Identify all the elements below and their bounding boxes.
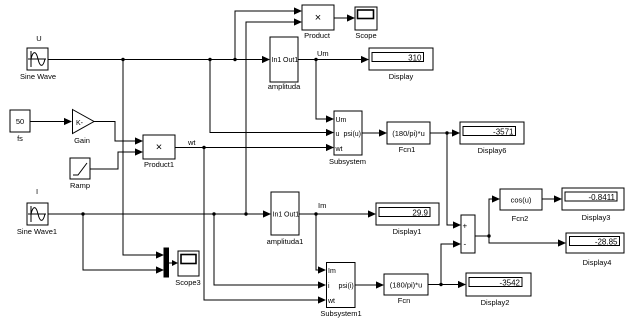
block Gain — [73, 110, 95, 146]
arrowhead into Display1 — [368, 210, 376, 217]
wire Fcn2 output to Display3 — [542, 198, 555, 200]
svg-text:fs: fs — [17, 134, 23, 143]
block Display4 (value -28.85) — [566, 233, 624, 267]
wire i branch to mux input 2 — [83, 214, 157, 270]
junction node on i wire at Product branch — [244, 212, 247, 215]
wire U: Sine Wave output to amplituda In1 — [48, 59, 263, 61]
wire i branch to Subsystem1 i input — [214, 214, 319, 285]
arrowhead into amplituda In1 — [262, 56, 270, 63]
arrowhead into Fcn2 — [492, 195, 500, 202]
arrowhead into Subsystem u — [326, 129, 334, 136]
svg-text:amplituda1: amplituda1 — [267, 237, 304, 246]
svg-text:cos(u): cos(u) — [511, 196, 532, 205]
svg-text:Sine Wave1: Sine Wave1 — [17, 227, 57, 236]
junction node on U wire at Product branch — [233, 58, 236, 61]
wire Gain output to Product1 input 1 — [94, 122, 136, 142]
svg-text:amplituda: amplituda — [268, 82, 301, 91]
svg-text:50: 50 — [16, 117, 24, 126]
wire Sum output branch to Display4 — [489, 236, 559, 243]
svg-text:Fcn: Fcn — [398, 296, 411, 305]
svg-text:Display1: Display1 — [393, 227, 422, 236]
svg-text:I: I — [36, 187, 38, 196]
svg-text:U: U — [36, 34, 41, 43]
wire wt branch to Subsystem1 wt input — [204, 148, 319, 301]
svg-text:Ramp: Ramp — [70, 181, 90, 190]
svg-text:-: - — [464, 240, 467, 249]
block Product (multiplier) — [302, 5, 334, 40]
wire mux output to Scope3 — [168, 262, 172, 264]
svg-text:Subsystem1: Subsystem1 — [320, 309, 361, 318]
arrowhead into Sum plus — [453, 221, 461, 228]
svg-text:Product: Product — [304, 31, 331, 40]
wire Fcn output to Display2 — [428, 284, 459, 286]
svg-text:Im: Im — [328, 268, 336, 275]
arrowhead into Product1 input 2 — [135, 148, 143, 155]
wire Subsystem psi(u) output to Fcn1 — [362, 132, 380, 134]
arrowhead into amplituda1 In1 — [263, 210, 271, 217]
block Fcn2 — [500, 189, 542, 223]
wire Subsystem1 psi(i) output to Fcn — [355, 284, 377, 286]
svg-text:-3571: -3571 — [493, 128, 514, 137]
arrowhead into Display — [361, 56, 369, 63]
arrowhead into Display4 — [558, 239, 566, 246]
arrowhead into Fcn — [376, 281, 384, 288]
svg-text:psi(u): psi(u) — [344, 131, 362, 138]
wire U branch to Subsystem u input — [210, 60, 327, 133]
block Display2 (value -3542) — [466, 273, 531, 307]
svg-text:29.9: 29.9 — [412, 209, 428, 218]
wire Sum output junction — [475, 235, 489, 237]
arrowhead into mux input 2 — [156, 266, 164, 273]
arrowhead into Fcn1 — [379, 129, 387, 136]
block Subsystem — [329, 111, 366, 166]
arrowhead into Display2 — [458, 281, 466, 288]
svg-text:psi(i): psi(i) — [339, 283, 354, 290]
arrowhead into Display3 — [554, 195, 562, 202]
wire Sum output branch to Fcn2 — [489, 199, 493, 236]
block amplituda (subsystem In1/Out1) — [268, 37, 301, 91]
arrowhead into Product1 input 1 — [135, 137, 143, 144]
junction node Um — [314, 58, 317, 61]
svg-text:310: 310 — [408, 54, 422, 63]
svg-text:Out1: Out1 — [283, 57, 298, 64]
junction node on i wire at mux branch — [81, 212, 84, 215]
block Fcn1 — [387, 122, 430, 154]
wire Im branch to Subsystem1 Im input — [316, 214, 319, 270]
block Scope3 — [175, 251, 200, 287]
svg-text:Um: Um — [336, 117, 347, 124]
svg-text:K-: K- — [76, 120, 84, 127]
svg-text:u: u — [336, 131, 340, 138]
wire Fcn1 output to Display6 — [430, 132, 453, 134]
svg-text:Display6: Display6 — [478, 146, 507, 155]
wire i: Sine Wave1 output to amplituda1 In1 — [48, 213, 264, 215]
junction node on U wire at mux branch — [121, 58, 124, 61]
wire Ramp output to Product1 input 2 — [90, 152, 136, 169]
svg-text:Scope: Scope — [355, 31, 376, 40]
wire Product output to Scope — [334, 17, 348, 19]
wire Um branch to Subsystem Um input — [316, 60, 327, 120]
svg-text:(180/pi)*u: (180/pi)*u — [390, 281, 423, 290]
wire Im: amplituda1 Out1 to Display1 — [299, 213, 369, 215]
block Sine Wave1 (I source) — [17, 187, 57, 236]
wire Fcn1 branch to Sum plus input — [447, 133, 454, 225]
svg-text:Gain: Gain — [74, 136, 90, 145]
svg-text:wt: wt — [187, 138, 196, 147]
arrowhead into Subsystem1 Im — [318, 266, 326, 273]
block Scope — [355, 7, 377, 40]
junction node on Fcn1 output — [445, 131, 448, 134]
svg-text:(180/pi)*u: (180/pi)*u — [392, 129, 425, 138]
block Ramp — [70, 158, 90, 190]
wire Fcn branch to Sum minus input — [441, 244, 454, 285]
svg-text:In1: In1 — [272, 57, 282, 64]
wire U branch to Product input 1 — [235, 11, 295, 60]
svg-text:wt: wt — [327, 298, 335, 305]
svg-text:Product1: Product1 — [144, 160, 174, 169]
arrowhead into Display6 — [452, 129, 460, 136]
block Product1 (multiplier) — [143, 135, 175, 169]
block Sine Wave (U source) — [20, 34, 56, 81]
svg-text:Display3: Display3 — [582, 213, 611, 222]
block Display1 (value 29.9) — [376, 203, 439, 236]
arrowhead into Product input 2 — [294, 18, 302, 25]
junction node on i wire at Subsystem1 branch — [212, 212, 215, 215]
arrowhead into Subsystem1 wt — [318, 296, 326, 303]
junction node Im — [314, 212, 317, 215]
svg-text:Out1: Out1 — [284, 212, 299, 219]
block amplituda1 (subsystem In1/Out1) — [267, 192, 304, 246]
svg-text:-28.85: -28.85 — [595, 238, 618, 247]
block Display3 (value -0.8411) — [562, 188, 624, 222]
svg-text:In1: In1 — [273, 212, 283, 219]
arrowhead into Gain — [64, 118, 72, 125]
svg-text:Display4: Display4 — [583, 258, 612, 267]
block Fcn — [384, 274, 428, 305]
block Display6 (value -3571) — [460, 122, 524, 155]
wire U branch to mux input 1 — [123, 60, 157, 256]
svg-text:Um: Um — [317, 49, 329, 58]
junction node on U wire at u branch — [208, 58, 211, 61]
arrowhead into Scope — [347, 14, 355, 21]
arrowhead into Subsystem wt — [326, 144, 334, 151]
svg-text:Fcn2: Fcn2 — [512, 214, 529, 223]
svg-text:×: × — [156, 142, 162, 154]
svg-text:Display2: Display2 — [481, 298, 510, 307]
junction node wt — [202, 146, 205, 149]
wire wt: Product1 output to Subsystem wt input — [175, 147, 327, 149]
junction node on Sum output — [487, 234, 490, 237]
svg-text:Subsystem: Subsystem — [329, 157, 366, 166]
wire i branch to Product input 2 — [246, 22, 295, 214]
svg-text:Scope3: Scope3 — [175, 278, 200, 287]
svg-text:Im: Im — [318, 201, 326, 210]
svg-text:-3542: -3542 — [500, 279, 521, 288]
arrowhead into Subsystem1 i — [318, 281, 326, 288]
svg-text:wt: wt — [335, 146, 343, 153]
arrowhead into Product input 1 — [294, 7, 302, 14]
svg-text:Fcn1: Fcn1 — [399, 145, 416, 154]
arrowhead into mux input 1 — [156, 251, 164, 258]
arrowhead into Subsystem Um — [326, 115, 334, 122]
arrowhead into Sum minus — [453, 240, 461, 247]
block Mux — [164, 248, 169, 277]
svg-text:Sine Wave: Sine Wave — [20, 72, 56, 81]
wire Um: amplituda Out1 to Display — [298, 59, 362, 61]
block Display (value 310) — [369, 48, 433, 81]
wire fs: constant 50 to Gain — [30, 121, 65, 123]
junction node on Fcn output — [439, 283, 442, 286]
svg-text:Display: Display — [389, 72, 414, 81]
block constant 50 (fs) — [10, 110, 30, 143]
svg-text:+: + — [463, 222, 468, 231]
svg-text:-0.8411: -0.8411 — [588, 193, 615, 202]
block Subsystem1 — [320, 263, 361, 318]
svg-text:×: × — [315, 12, 321, 24]
block Sum (plus minus) — [461, 215, 475, 253]
arrowhead into Scope3 — [172, 260, 178, 266]
